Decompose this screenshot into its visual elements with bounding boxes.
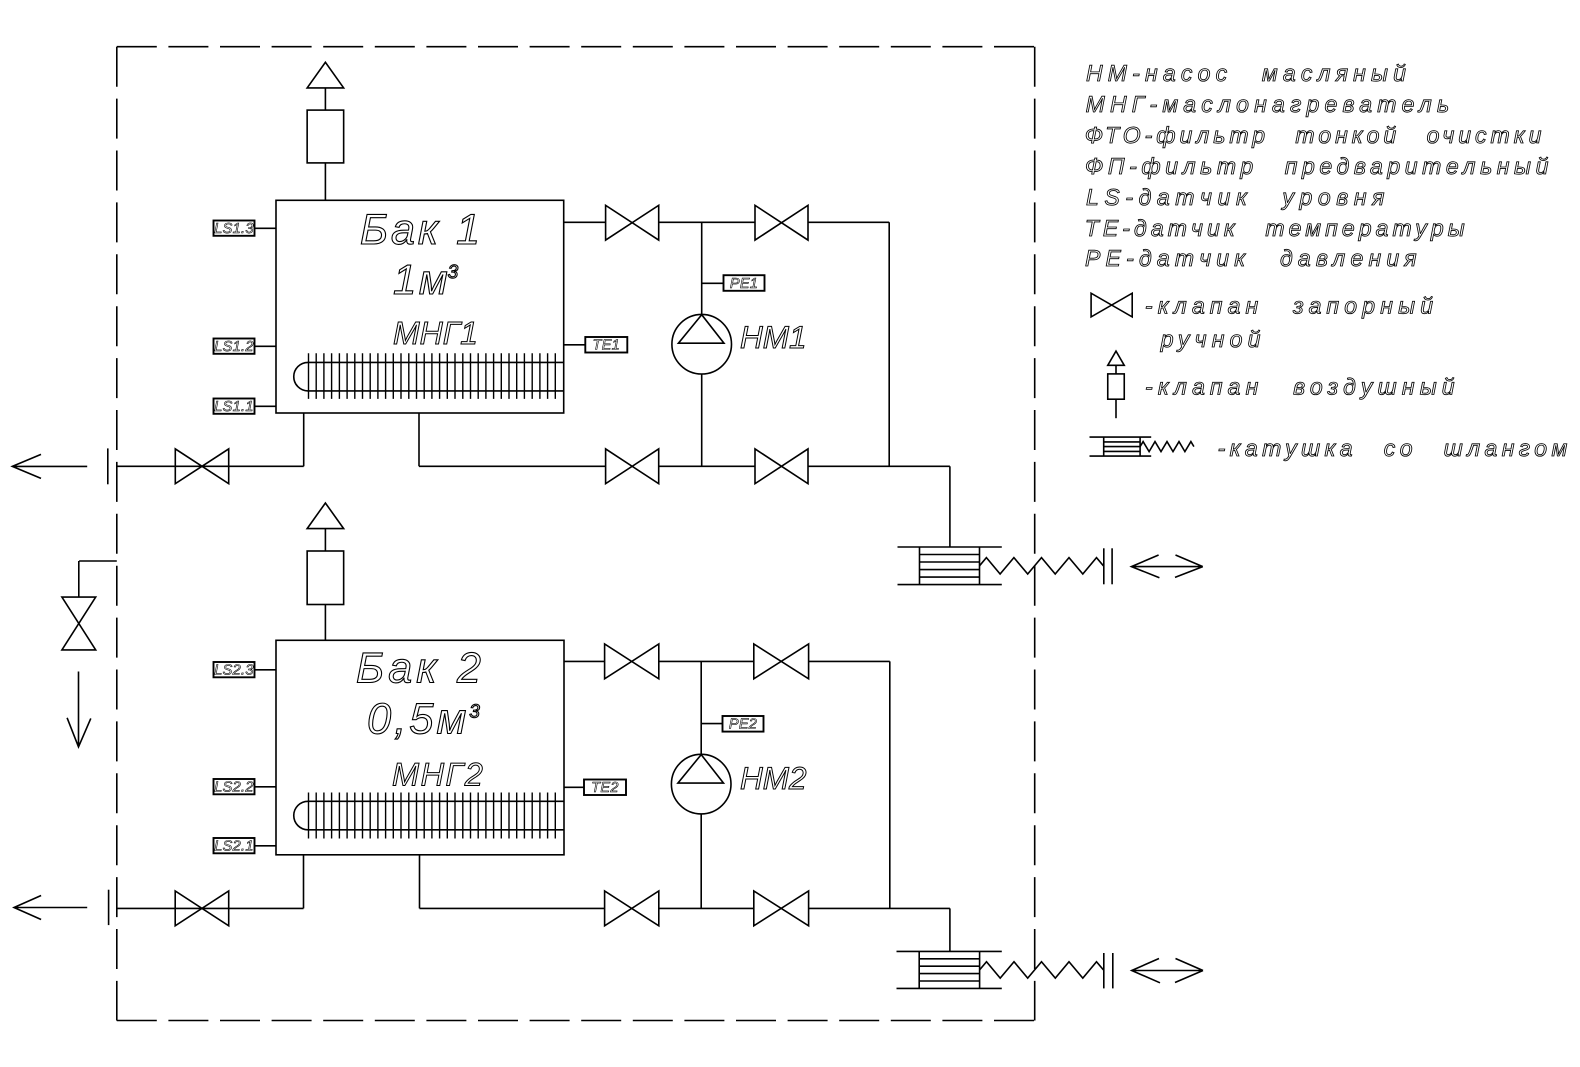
svg-text:Бак 1: Бак 1: [360, 206, 483, 254]
level sensor LS2.1: [214, 838, 255, 853]
outlet arrow 1: [12, 454, 87, 478]
wire border to left drain 2: [117, 907, 304, 909]
level sensor LS2.2: [214, 779, 255, 794]
heater МНГ1 coil: [294, 362, 308, 391]
wire PE1 stub: [702, 282, 724, 284]
svg-text:-клапан запорный: -клапан запорный: [1145, 293, 1438, 319]
wire border to left drain: [117, 465, 304, 467]
svg-text:-катушка со шлангом: -катушка со шлангом: [1218, 435, 1572, 461]
svg-text:ТЕ1: ТЕ1: [593, 338, 621, 354]
svg-text:НМ1: НМ1: [740, 319, 807, 355]
valve tank2 outlet: [175, 891, 229, 926]
svg-text:-клапан воздушный: -клапан воздушный: [1145, 373, 1460, 399]
wire pump 2 to bottom header: [700, 814, 702, 909]
svg-text:РЕ2: РЕ2: [729, 717, 757, 733]
pressure sensor PE1: [724, 275, 765, 291]
wire right riser tank2: [889, 661, 891, 908]
wire tank 1 right drain: [418, 413, 420, 466]
svg-text:РЕ1: РЕ1: [730, 276, 758, 292]
valve tank1 discharge left: [606, 205, 659, 240]
wire valve to right riser 2: [809, 660, 890, 662]
wire tank 2 right drain: [419, 855, 421, 909]
valve tank2 discharge right: [754, 644, 809, 679]
legend air valve symbol: [1108, 351, 1125, 365]
wire LS2.3 to tank 2: [255, 669, 277, 671]
svg-text:1м3: 1м3: [393, 256, 459, 303]
wire tank 1 to TE1: [564, 344, 586, 346]
wire tank 1 outlet to valve: [564, 221, 606, 223]
svg-text:0,5м3: 0,5м3: [367, 696, 483, 744]
temperature sensor TE1: [585, 337, 627, 353]
level sensor LS1.2: [214, 339, 255, 354]
svg-text:МНГ1: МНГ1: [393, 315, 478, 351]
level sensor LS1.3: [214, 221, 255, 236]
hose 2 coupling ticks: [1103, 953, 1105, 988]
wire pump 1 suction drop: [701, 222, 703, 314]
wire LS1.1 to tank 1: [255, 405, 277, 407]
wire valve to reel drop: [808, 465, 950, 467]
drain down arrow: [67, 672, 91, 747]
air valve on tank 2: [307, 503, 344, 529]
wire pump 1 to bottom header: [701, 374, 703, 466]
valve tank1 bottom left: [606, 449, 659, 484]
valve tank1 discharge right: [755, 205, 808, 240]
svg-text:ТЕ2: ТЕ2: [591, 780, 619, 796]
level sensor LS1.1: [214, 399, 255, 414]
valve tank2 bottom left: [605, 891, 659, 926]
hose 2 double arrow: [1132, 959, 1203, 983]
pressure sensor PE2: [723, 716, 764, 732]
hose 2 zigzag: [980, 962, 1104, 978]
svg-text:НМ2: НМ2: [740, 760, 807, 796]
wire reel 2 drop: [949, 908, 951, 951]
wire tank 2 to TE2: [564, 786, 584, 788]
wire valve to pump 2 line: [659, 907, 754, 909]
legend valve symbol: [1091, 293, 1132, 317]
valve drain vertical: [62, 597, 96, 650]
wire right riser tank1: [888, 222, 890, 466]
outlet arrow 2: [14, 896, 87, 920]
wire reel 1 drop: [949, 466, 951, 547]
svg-text:ФП-фильтр предварительный: ФП-фильтр предварительный: [1085, 153, 1553, 179]
legend hose zigzag: [1140, 442, 1194, 452]
air valve on tank 1: [307, 62, 344, 88]
valve tank1 bottom right: [755, 449, 808, 484]
dashed enclosure border: [117, 46, 1035, 48]
wire tank 2 outlet to valve: [564, 660, 605, 662]
svg-text:LS2.2: LS2.2: [214, 779, 253, 795]
wire pump 2 suction drop: [700, 661, 702, 754]
valve tank2 bottom right: [754, 891, 809, 926]
svg-text:LS1.1: LS1.1: [214, 399, 253, 415]
wire tank 2 left drain: [303, 855, 305, 909]
wire tank 1 left drain: [303, 413, 305, 466]
wire LS1.2 to tank 1: [255, 345, 277, 347]
svg-text:Бак 2: Бак 2: [356, 645, 485, 693]
svg-text:LS1.3: LS1.3: [214, 221, 253, 237]
wire valve to pump line: [659, 465, 755, 467]
svg-text:ручной: ручной: [1160, 326, 1266, 352]
svg-text:LS2.3: LS2.3: [214, 662, 253, 678]
wire valve to pump 2 tee: [659, 660, 754, 662]
svg-text:РЕ-датчик давления: РЕ-датчик давления: [1085, 245, 1422, 271]
wire valve to pump tee: [659, 221, 755, 223]
hose 1 zigzag: [980, 558, 1104, 574]
hose 1 coupling ticks: [1103, 548, 1105, 584]
hose reel 2: [897, 950, 1002, 952]
valve tank1 outlet: [175, 449, 228, 484]
svg-text:НМ-насос масляный: НМ-насос масляный: [1086, 60, 1411, 86]
pump НМ1: [672, 314, 732, 374]
tank Бак 2: [276, 640, 564, 855]
pump НМ2: [671, 754, 731, 814]
wire valve to reel 2 drop: [809, 907, 950, 909]
wire valve to right riser: [808, 221, 889, 223]
legend hose reel symbol: [1090, 436, 1152, 438]
wire LS1.3 to tank 1: [255, 227, 277, 229]
tank Бак 1: [276, 200, 564, 413]
wire drain to valve: [419, 465, 606, 467]
hose 1 double arrow: [1131, 555, 1202, 578]
wire PE2 stub: [701, 723, 722, 725]
svg-text:МНГ2: МНГ2: [392, 756, 484, 792]
svg-text:LS-датчик уровня: LS-датчик уровня: [1086, 184, 1390, 210]
wire LS2.2 to tank 2: [255, 786, 277, 788]
valve tank2 discharge left: [605, 644, 659, 679]
svg-text:МНГ-маслонагреватель: МНГ-маслонагреватель: [1086, 91, 1455, 117]
wire drain branch drop: [78, 561, 80, 597]
wire drain branch stub: [79, 560, 117, 562]
flange tick outlet 2: [108, 890, 110, 925]
svg-text:ФТО-фильтр тонкой очистки: ФТО-фильтр тонкой очистки: [1085, 122, 1546, 148]
svg-text:LS2.1: LS2.1: [214, 838, 253, 854]
hose reel 1: [898, 546, 1002, 548]
level sensor LS2.3: [214, 662, 255, 677]
flange tick outlet 1: [107, 448, 109, 484]
svg-text:ТЕ-датчик температуры: ТЕ-датчик температуры: [1085, 215, 1469, 241]
wire LS2.1 to tank 2: [255, 845, 277, 847]
temperature sensor TE2: [584, 780, 626, 796]
svg-text:LS1.2: LS1.2: [214, 339, 253, 355]
heater МНГ2 coil: [294, 801, 308, 830]
wire drain2 to valve: [420, 907, 605, 909]
